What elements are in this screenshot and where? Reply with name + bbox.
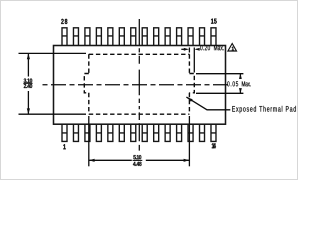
arrow left (0.20 dim right) <box>195 48 200 51</box>
package body outline U1 <box>54 46 226 125</box>
dim 0.20 ext line from notch edge <box>193 48 195 73</box>
dim 3.10/2.40 extension line bottom <box>19 113 87 115</box>
dim text 0.20 Max. <box>200 45 210 50</box>
pin number 28 <box>61 19 67 24</box>
leader arrowhead (exposed pad) <box>186 97 193 102</box>
arrow up (0.05 dim) <box>239 74 242 79</box>
arrow right (5.10 dim) <box>184 159 190 162</box>
dim 0.05 ext line bottom <box>196 92 243 94</box>
arrow left (5.10 dim) <box>89 159 95 162</box>
pin number 14 <box>212 143 216 148</box>
leader line for exposed thermal pad <box>186 97 230 110</box>
dim 0.20 ext line from pad edge <box>188 48 190 53</box>
horizontal centerline <box>43 84 229 86</box>
dim 0.05 dimension line <box>239 74 241 94</box>
dim 0.05 ext line top <box>196 73 243 75</box>
dim 3.10/2.40 extension line top <box>19 52 87 54</box>
dim 0.20 right arrow tail <box>197 48 198 50</box>
arrow right (0.20 dim left) <box>184 48 189 51</box>
top pins 28..15 <box>62 28 216 46</box>
arrow down (2.40 dim bottom) <box>27 108 30 114</box>
pin number 15 <box>211 19 217 24</box>
dim text 0.05 Max. <box>227 81 238 86</box>
arrow up (3.10 dim top) <box>27 53 30 59</box>
dim 5.10/4.48 dimension line <box>89 159 190 161</box>
arrow down (0.05 dim) <box>239 88 242 93</box>
vertical centerline <box>138 19 140 151</box>
fraction bar 5.10/4.48 <box>133 159 143 161</box>
dim 5.10/4.48 extension line right <box>188 116 190 166</box>
dim text 5.10 over 4.48 <box>133 155 142 166</box>
pin number 1 <box>63 144 65 149</box>
dim 5.10/4.48 extension line left <box>88 116 90 166</box>
dim text 3.10 over 2.40 <box>24 78 32 88</box>
fraction bar 3.10/2.40 <box>23 82 32 84</box>
bottom pins 1..14 <box>62 124 216 141</box>
exposed thermal pad dashed outline <box>84 54 194 114</box>
dim 0.20 left arrow tail <box>181 48 185 50</box>
revision flag triangle 1 <box>228 44 237 52</box>
label Exposed Thermal Pad <box>232 106 296 113</box>
dim 3.10/2.40 dimension line <box>27 53 29 114</box>
